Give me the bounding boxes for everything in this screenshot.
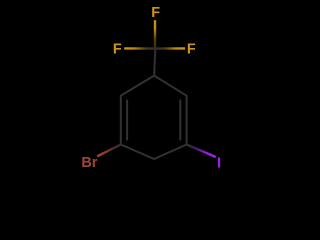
svg-text:F: F [151,5,160,21]
bond C-Br (gradient brown to carbon) [97,145,121,157]
wire ring edge V3-V4 (bottom-right diagonal) [154,145,187,160]
wire ring edge V1-V2 (top-right diagonal) [154,76,187,96]
wire ring edge V6-V1 (top-left diagonal) [121,76,154,96]
wire aromatic inner line right [179,101,181,140]
svg-text:I: I [217,155,221,171]
wire bond ring V1 to CF3 carbon [154,49,155,76]
benzene ring carbon skeleton [121,49,187,159]
wire ring edge V2-V3 (right vertical) [186,96,188,145]
wire aromatic inner line left [126,101,128,140]
bond C-F top (gradient goldenrod to carbon) [154,20,156,48]
svg-text:F: F [187,42,196,58]
bond C-F right (gradient goldenrod to carbon) [155,47,185,50]
svg-text:F: F [113,42,122,58]
bond C-F left (gradient goldenrod to carbon) [124,47,155,50]
wire ring edge V5-V6 (left vertical) [120,96,122,145]
wire ring edge V4-V5 (bottom-left diagonal) [121,145,154,160]
bond C-I (gradient purple to carbon) [187,145,216,158]
svg-text:Br: Br [81,155,97,171]
